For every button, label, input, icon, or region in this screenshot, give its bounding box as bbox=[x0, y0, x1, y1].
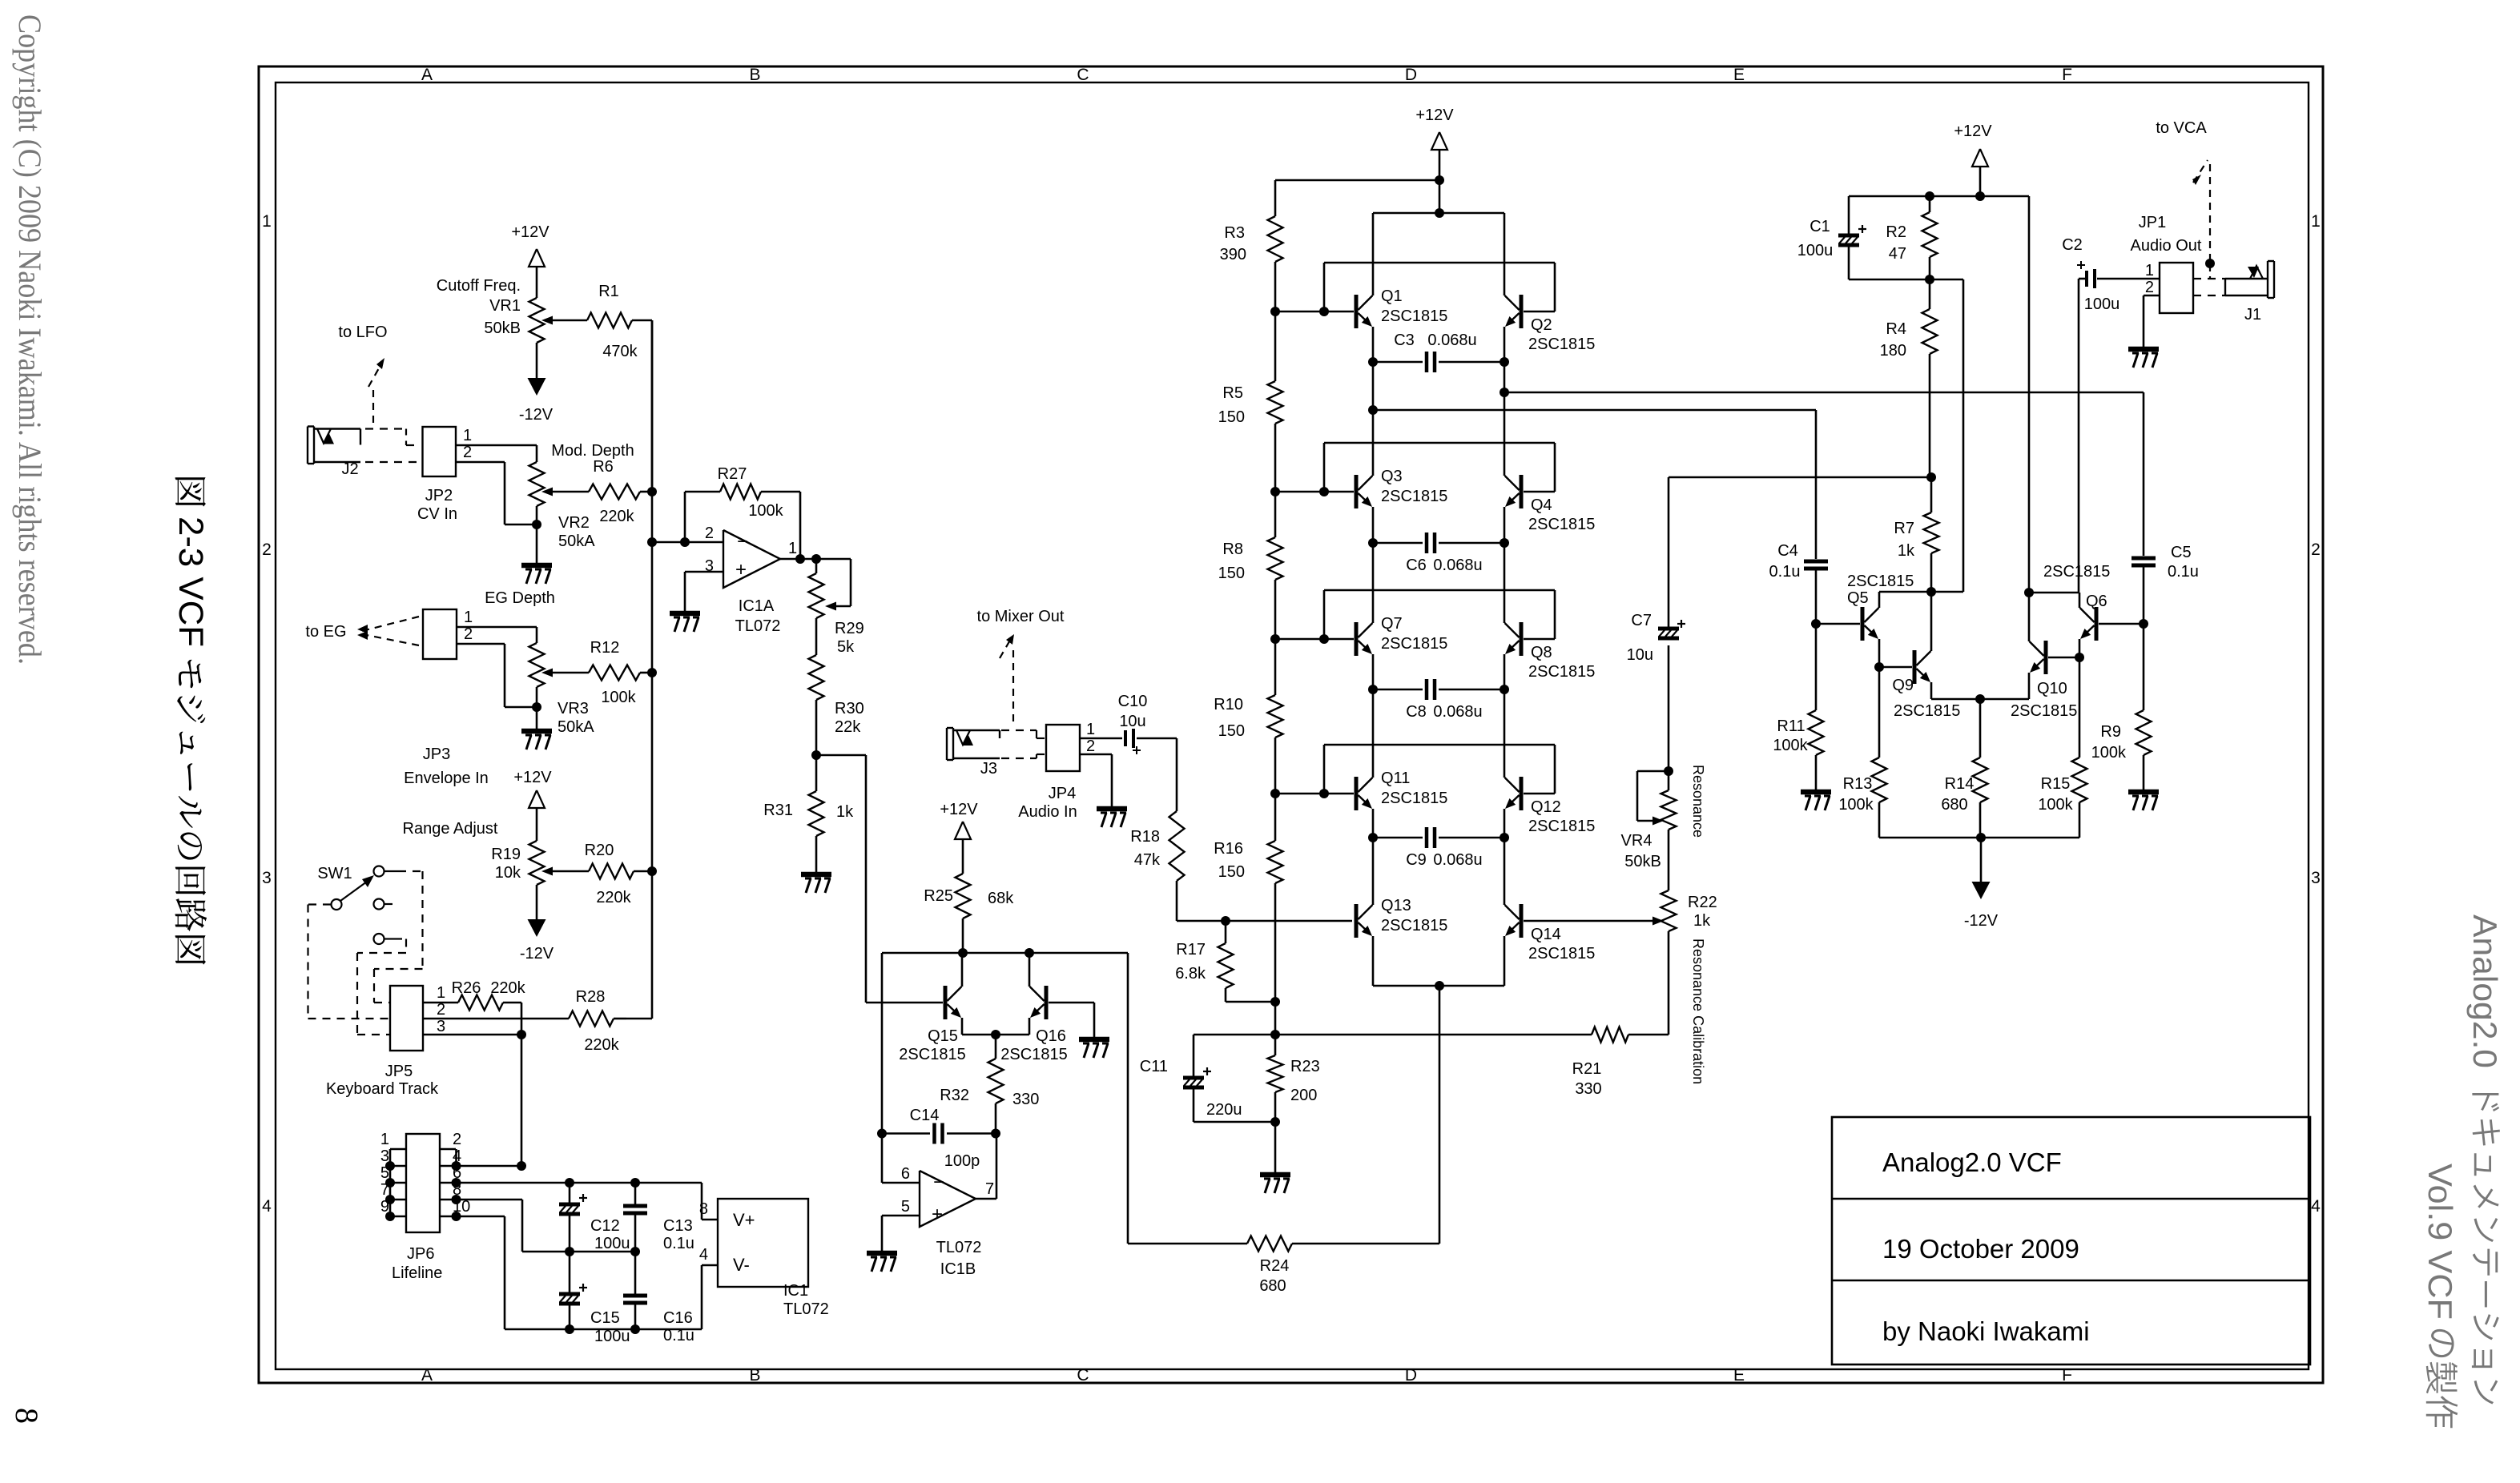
dashed cable J3 to JP4 bbox=[1001, 730, 1046, 758]
wire Q1 collector bbox=[1372, 213, 1375, 295]
dashed SW1 common to JP5 pin2 bbox=[308, 905, 391, 1019]
node chain R17 junction bbox=[1270, 997, 1280, 1007]
svg-text:4: 4 bbox=[453, 1147, 461, 1165]
transistor Q12 2SC1815 bbox=[1505, 777, 1596, 835]
svg-text:C3: C3 bbox=[1394, 332, 1415, 349]
svg-text:Vol.9 VCF: Vol.9 VCF bbox=[2421, 1163, 2459, 1320]
svg-text:100k: 100k bbox=[2038, 796, 2073, 814]
row label 2 left bbox=[262, 541, 272, 559]
capacitor C6 0.068u bbox=[1373, 533, 1504, 574]
svg-text:100k: 100k bbox=[601, 689, 636, 706]
svg-text:2SC1815: 2SC1815 bbox=[1000, 1046, 1067, 1063]
svg-text:Keyboard Track: Keyboard Track bbox=[326, 1080, 439, 1098]
svg-text:1: 1 bbox=[262, 212, 272, 231]
svg-text:100u: 100u bbox=[594, 1235, 630, 1252]
wire Q15 collector bbox=[961, 953, 964, 987]
transistor Q14 2SC1815 bbox=[1505, 904, 1596, 963]
power +12V (VR1) bbox=[511, 223, 549, 298]
svg-text:680: 680 bbox=[1259, 1277, 1286, 1295]
dashed cable J2 to JP2 bbox=[365, 429, 420, 463]
potentiometer VR3 50kA bbox=[485, 589, 594, 736]
row label 2 right bbox=[2311, 541, 2321, 559]
svg-text:C10: C10 bbox=[1118, 693, 1148, 710]
node chain feedback junction bbox=[1194, 1002, 1592, 1039]
op-amp IC1B bbox=[901, 1165, 994, 1278]
potentiometer VR1 50kB bbox=[437, 277, 587, 343]
wire R6 to bus bbox=[640, 491, 652, 493]
wire base over-route rung 3 bbox=[1319, 590, 1555, 644]
svg-text:J1: J1 bbox=[2244, 306, 2261, 324]
node Q15/Q16 emitters bbox=[991, 1030, 1000, 1039]
resistor R25 68k bbox=[924, 874, 1014, 953]
wire Q4 emitter bbox=[1500, 507, 1509, 548]
svg-text:2SC1815: 2SC1815 bbox=[1528, 516, 1595, 533]
svg-text:B: B bbox=[749, 66, 760, 84]
svg-text:JP1: JP1 bbox=[2139, 214, 2166, 231]
figure caption (rotated) bbox=[171, 477, 210, 964]
resistor R23 200 bbox=[1268, 1035, 1320, 1122]
capacitor C8 0.068u bbox=[1373, 679, 1504, 721]
IC1 power block bbox=[699, 1199, 829, 1318]
wire base over-route rung 4 bbox=[1319, 745, 1555, 798]
wire Q4 collector bbox=[1504, 362, 1506, 476]
svg-text:Q7: Q7 bbox=[1381, 615, 1403, 633]
svg-text:to Mixer Out: to Mixer Out bbox=[977, 608, 1065, 625]
svg-text:R12: R12 bbox=[590, 639, 620, 657]
copyright text (rotated) bbox=[12, 14, 48, 665]
power +12V (R25) bbox=[940, 801, 978, 874]
svg-text:1: 1 bbox=[464, 609, 473, 626]
wire C14 to IC1B minus bbox=[882, 1134, 920, 1184]
ground (JP1) bbox=[2128, 349, 2159, 368]
power +12V (output) bbox=[1954, 123, 1992, 196]
wire JP6 pin6 +12V rail bbox=[457, 1178, 719, 1220]
svg-text:1: 1 bbox=[437, 984, 445, 1002]
svg-text:J3: J3 bbox=[980, 760, 997, 778]
capacitor C13 0.1u bbox=[623, 1183, 694, 1252]
wire Q6 emitter bbox=[2079, 639, 2081, 657]
ground (IC1A plus) bbox=[670, 613, 700, 632]
svg-text:Q11: Q11 bbox=[1381, 770, 1410, 787]
svg-text:1k: 1k bbox=[836, 803, 854, 821]
svg-text:R16: R16 bbox=[1214, 840, 1243, 858]
title block author bbox=[1882, 1316, 2090, 1346]
svg-text:6.8k: 6.8k bbox=[1175, 965, 1206, 983]
resistor R7 1k bbox=[1894, 472, 1938, 592]
power -12V (R19) bbox=[520, 885, 554, 963]
svg-text:F: F bbox=[2062, 1366, 2072, 1385]
wire IC1 V- to bottom rail bbox=[702, 1265, 718, 1329]
svg-text:C9: C9 bbox=[1406, 851, 1427, 869]
svg-text:Q9: Q9 bbox=[1892, 677, 1914, 694]
capacitor C11 220u bbox=[1140, 1035, 1275, 1122]
right margin title line 1 (rotated) bbox=[2466, 914, 2504, 1404]
wire Q3 emitter bbox=[1368, 507, 1378, 548]
connector JP6 Lifeline bbox=[380, 1131, 470, 1282]
label Resonance (rotated) bbox=[1690, 765, 1706, 838]
resistor R27 100k bbox=[685, 465, 800, 559]
svg-text:Envelope In: Envelope In bbox=[404, 770, 489, 787]
wire JP2 pin1 to VR2 top bbox=[456, 445, 537, 462]
resistor R18 47k bbox=[1130, 738, 1184, 921]
svg-text:+12V: +12V bbox=[1954, 123, 1992, 140]
svg-text:4: 4 bbox=[262, 1197, 272, 1216]
potentiometer R29 5k bbox=[809, 559, 864, 656]
svg-text:R1: R1 bbox=[598, 283, 619, 300]
wire Q12 collector bbox=[1504, 689, 1506, 778]
wire Q10 collector bbox=[2024, 588, 2034, 641]
svg-text:100k: 100k bbox=[1838, 796, 1874, 814]
wire R20 to bus bbox=[634, 870, 652, 873]
svg-text:R6: R6 bbox=[593, 458, 614, 476]
jack J1 bbox=[2225, 261, 2274, 324]
column label B bottom bbox=[749, 1366, 760, 1385]
node ladder base 3 bbox=[1270, 634, 1354, 644]
svg-text:Audio In: Audio In bbox=[1018, 803, 1077, 821]
resistor R32 330 bbox=[940, 1035, 1039, 1134]
svg-text:R3: R3 bbox=[1224, 224, 1245, 242]
svg-text:EG Depth: EG Depth bbox=[485, 589, 555, 607]
svg-text:50kA: 50kA bbox=[558, 718, 594, 736]
svg-text:220k: 220k bbox=[599, 508, 634, 525]
svg-text:0.1u: 0.1u bbox=[1769, 563, 1801, 581]
svg-text:IC1: IC1 bbox=[783, 1282, 808, 1300]
svg-text:IC1A: IC1A bbox=[739, 597, 775, 615]
svg-text:J2: J2 bbox=[341, 460, 358, 478]
svg-text:A: A bbox=[421, 66, 433, 84]
wire Q15 emitter bbox=[962, 1018, 996, 1035]
column label D bottom bbox=[1405, 1366, 1417, 1385]
wire JP4 pin2 to ground bbox=[1080, 754, 1112, 809]
svg-text:100u: 100u bbox=[2084, 295, 2120, 313]
svg-text:2-3 VCF: 2-3 VCF bbox=[171, 516, 210, 647]
wire Q13 emitter bbox=[1373, 936, 1439, 986]
resistor R26 220k bbox=[452, 979, 526, 1011]
svg-text:Q4: Q4 bbox=[1531, 496, 1552, 514]
svg-text:3: 3 bbox=[262, 869, 272, 887]
svg-text:A: A bbox=[421, 1366, 433, 1385]
svg-text:2SC1815: 2SC1815 bbox=[1528, 818, 1595, 835]
wire IC1B plus to ground bbox=[882, 1216, 920, 1253]
dashed SW1 bottom contact to JP5 pin3 bbox=[357, 939, 406, 1035]
wire Q2 collector bbox=[1504, 213, 1506, 295]
svg-text:3: 3 bbox=[437, 1018, 445, 1035]
svg-text:R2: R2 bbox=[1886, 223, 1906, 241]
svg-text:TL072: TL072 bbox=[783, 1300, 829, 1318]
svg-text:150: 150 bbox=[1218, 722, 1245, 740]
capacitor C10 10u bbox=[1080, 693, 1177, 754]
title block text Analog2.0 VCF bbox=[1882, 1147, 2062, 1177]
svg-text:0.1u: 0.1u bbox=[2168, 563, 2199, 581]
connector JP3 Envelope In bbox=[404, 609, 489, 787]
jack J2 bbox=[308, 427, 360, 479]
svg-text:470k: 470k bbox=[602, 343, 638, 360]
svg-text:180: 180 bbox=[1880, 342, 1906, 360]
svg-text:Q12: Q12 bbox=[1531, 798, 1561, 816]
svg-text:TL072: TL072 bbox=[936, 1239, 982, 1256]
wire R7 bypass to R2 node bbox=[1931, 279, 1963, 592]
wire Q3 collector bbox=[1372, 362, 1375, 476]
svg-text:-12V: -12V bbox=[1964, 912, 1999, 930]
transistor Q16 2SC1815 bbox=[1000, 986, 1067, 1063]
capacitor C4 0.1u bbox=[1769, 410, 1828, 624]
to VCA dashed arrow bbox=[2156, 119, 2210, 261]
svg-text:C4: C4 bbox=[1777, 542, 1798, 560]
svg-text:Q13: Q13 bbox=[1381, 897, 1411, 914]
svg-text:R23: R23 bbox=[1290, 1058, 1320, 1075]
svg-text:Audio Out: Audio Out bbox=[2131, 237, 2202, 255]
jack J3 bbox=[947, 728, 1000, 778]
svg-text:2SC1815: 2SC1815 bbox=[1528, 945, 1595, 963]
svg-text:R7: R7 bbox=[1894, 520, 1914, 537]
svg-text:R11: R11 bbox=[1777, 717, 1805, 735]
svg-text:-12V: -12V bbox=[519, 406, 554, 424]
wire base over-route rung 1 bbox=[1319, 263, 1555, 316]
svg-text:C16: C16 bbox=[663, 1309, 693, 1327]
wire JP6 pin8 mid rail bbox=[457, 1200, 641, 1256]
wire JP6 pin10 bottom rail bbox=[457, 1216, 702, 1334]
ground (R31) bbox=[801, 874, 831, 893]
ground (JP4) bbox=[1097, 809, 1127, 827]
svg-text:200: 200 bbox=[1290, 1087, 1317, 1104]
svg-text:5: 5 bbox=[901, 1198, 910, 1216]
transistor Q7 2SC1815 bbox=[1356, 615, 1447, 656]
resistor R9 100k bbox=[2091, 624, 2152, 792]
svg-text:SW1: SW1 bbox=[317, 865, 352, 882]
svg-text:to LFO: to LFO bbox=[338, 324, 387, 341]
wire R28 right bbox=[614, 1018, 626, 1020]
svg-text:2SC1815: 2SC1815 bbox=[899, 1046, 965, 1063]
svg-text:5: 5 bbox=[380, 1164, 389, 1182]
svg-text:100k: 100k bbox=[748, 502, 783, 520]
svg-text:CV In: CV In bbox=[417, 505, 457, 523]
wire Q14 emitter bbox=[1439, 936, 1504, 986]
wire Q8 emitter bbox=[1500, 654, 1509, 694]
svg-text:Q10: Q10 bbox=[2037, 680, 2067, 697]
switch SW1 bbox=[317, 865, 398, 944]
transistor Q11 2SC1815 bbox=[1356, 770, 1447, 810]
svg-text:2SC1815: 2SC1815 bbox=[1381, 307, 1447, 325]
svg-text:47: 47 bbox=[1889, 245, 1906, 263]
right margin title line 2 (rotated) bbox=[2421, 1163, 2459, 1428]
svg-text:10k: 10k bbox=[495, 864, 521, 882]
svg-text:R22: R22 bbox=[1688, 894, 1717, 911]
op-amp IC1A bbox=[705, 524, 797, 635]
svg-text:Analog2.0 VCF: Analog2.0 VCF bbox=[1882, 1147, 2062, 1177]
svg-text:R8: R8 bbox=[1222, 541, 1243, 558]
svg-text:0.068u: 0.068u bbox=[1433, 703, 1482, 721]
svg-text:5k: 5k bbox=[837, 638, 855, 656]
wire Q14 collector bbox=[1504, 838, 1506, 905]
svg-text:C8: C8 bbox=[1406, 703, 1427, 721]
wire R25 node down to C14 bbox=[881, 953, 884, 1134]
wire ladder collector tee bbox=[1373, 212, 1504, 215]
row label 4 left bbox=[262, 1197, 272, 1216]
title block date bbox=[1882, 1234, 2079, 1264]
svg-text:8: 8 bbox=[453, 1181, 461, 1199]
svg-text:B: B bbox=[749, 1366, 760, 1385]
resistor R1 470k bbox=[587, 283, 638, 360]
to Mixer Out dashed arrow bbox=[977, 608, 1065, 725]
power -12V (VR1) bbox=[519, 343, 554, 424]
svg-text:1: 1 bbox=[2145, 262, 2154, 279]
svg-text:to VCA: to VCA bbox=[2156, 119, 2207, 137]
connector JP2 CV In bbox=[417, 427, 472, 523]
svg-text:R9: R9 bbox=[2100, 723, 2121, 741]
node ladder base 1 bbox=[1270, 307, 1354, 316]
column label A top bbox=[421, 66, 433, 84]
wire JP3 pin2 to VR3 bottom bbox=[457, 644, 537, 707]
svg-text:Q2: Q2 bbox=[1531, 316, 1552, 334]
dashed SW1 top contact to JP5 pin1 bbox=[374, 871, 423, 1003]
node Q5 base bbox=[1811, 619, 1860, 629]
svg-text:6: 6 bbox=[901, 1165, 910, 1183]
ground (R9) bbox=[2128, 792, 2159, 810]
svg-text:Q3: Q3 bbox=[1381, 468, 1403, 485]
svg-text:+: + bbox=[735, 559, 747, 581]
trimmer R22 1k bbox=[1652, 890, 1717, 931]
svg-text:Resonance Calibration: Resonance Calibration bbox=[1690, 938, 1706, 1084]
svg-text:C1: C1 bbox=[1809, 218, 1830, 235]
resistor R13 100k bbox=[1838, 667, 1981, 838]
node bus to op-amp minus bbox=[647, 537, 723, 547]
capacitor C2 100u bbox=[2062, 236, 2160, 313]
node -12V rail bbox=[1976, 833, 1986, 882]
wire output to C2 bbox=[2079, 279, 2085, 593]
svg-text:390: 390 bbox=[1220, 246, 1246, 263]
svg-text:22k: 22k bbox=[835, 718, 861, 736]
svg-text:0.068u: 0.068u bbox=[1433, 557, 1482, 574]
svg-text:4: 4 bbox=[2311, 1197, 2321, 1216]
svg-text:0.068u: 0.068u bbox=[1433, 851, 1482, 869]
svg-text:R29: R29 bbox=[835, 620, 864, 637]
ground (R23) bbox=[1260, 1175, 1290, 1193]
svg-text:2: 2 bbox=[1086, 737, 1095, 755]
wire R18 to Q13 base bbox=[1177, 916, 1352, 926]
connector JP4 Audio In bbox=[1018, 721, 1095, 821]
column label F top bbox=[2062, 66, 2072, 84]
node R30/R31 bbox=[811, 750, 866, 760]
svg-text:7: 7 bbox=[985, 1180, 994, 1198]
wire Q9 collector bbox=[1930, 592, 1933, 651]
svg-text:2SC1815: 2SC1815 bbox=[2011, 702, 2077, 720]
svg-text:D: D bbox=[1405, 66, 1417, 84]
svg-text:680: 680 bbox=[1941, 796, 1967, 814]
capacitor C16 0.1u bbox=[623, 1252, 694, 1344]
node ladder right output tap bbox=[1500, 388, 2144, 397]
svg-text:+12V: +12V bbox=[513, 769, 552, 786]
node VR3 bottom bbox=[532, 687, 541, 731]
svg-text:220k: 220k bbox=[490, 979, 525, 997]
wire Q12 emitter bbox=[1500, 809, 1509, 842]
svg-text:E: E bbox=[1733, 1366, 1745, 1385]
transistor Q2 2SC1815 bbox=[1505, 295, 1596, 353]
wire IC1A output bbox=[780, 554, 851, 606]
transistor Q10 2SC1815 bbox=[2011, 641, 2077, 720]
resistor R5 150 bbox=[1218, 311, 1283, 492]
svg-text:1: 1 bbox=[788, 540, 797, 557]
svg-text:2SC1815: 2SC1815 bbox=[2043, 563, 2110, 581]
svg-text:R13: R13 bbox=[1843, 775, 1873, 793]
node ladder base 2 bbox=[1270, 487, 1354, 496]
svg-text:C15: C15 bbox=[590, 1309, 620, 1327]
svg-text:2SC1815: 2SC1815 bbox=[1381, 917, 1447, 934]
wire Q5 emitter to Q9 base bbox=[1874, 639, 1912, 672]
svg-text:Lifeline: Lifeline bbox=[392, 1264, 442, 1282]
svg-text:2: 2 bbox=[2145, 279, 2154, 296]
svg-text:2SC1815: 2SC1815 bbox=[1381, 488, 1447, 505]
transistor Q5 2SC1815 bbox=[1847, 573, 1914, 641]
power -12V (buffer) bbox=[1964, 882, 1999, 930]
svg-text:2: 2 bbox=[2311, 541, 2321, 559]
wire R12 to bus bbox=[640, 672, 652, 674]
border outer frame bbox=[259, 66, 2323, 1383]
svg-text:1: 1 bbox=[463, 427, 472, 444]
svg-text:Mod. Depth: Mod. Depth bbox=[551, 442, 634, 460]
svg-text:V-: V- bbox=[733, 1255, 750, 1275]
wire Q10 emitter bbox=[1980, 673, 2029, 699]
resistor R24 680 bbox=[1128, 1236, 1439, 1296]
ground (Q16 base) bbox=[1079, 1039, 1109, 1058]
transistor Q1 2SC1815 bbox=[1356, 287, 1447, 328]
svg-text:Range Adjust: Range Adjust bbox=[403, 820, 498, 838]
node R2 bottom bbox=[1849, 275, 1963, 284]
wire R30 node to Q15 base bbox=[866, 755, 943, 1003]
column label E top bbox=[1733, 66, 1745, 84]
svg-text:C11: C11 bbox=[1140, 1058, 1168, 1075]
wire IC1B output bbox=[976, 1134, 996, 1200]
svg-text:Resonance: Resonance bbox=[1690, 765, 1706, 838]
svg-text:Cutoff Freq.: Cutoff Freq. bbox=[437, 277, 521, 295]
svg-text:150: 150 bbox=[1218, 565, 1245, 582]
capacitor C1 100u bbox=[1797, 196, 1866, 279]
wire JP6 pin4 junction bbox=[457, 1161, 527, 1171]
wire Q16 base to ground bbox=[1049, 1003, 1094, 1039]
svg-text:1k: 1k bbox=[1898, 542, 1915, 560]
wire Q2 emitter bbox=[1500, 327, 1509, 367]
svg-text:2SC1815: 2SC1815 bbox=[1381, 635, 1447, 653]
wire R26 to pin3 node bbox=[503, 1003, 521, 1035]
resistor R31 1k bbox=[763, 755, 854, 874]
wire Q9 emitter bbox=[1931, 682, 1985, 704]
svg-text:150: 150 bbox=[1218, 863, 1245, 881]
wire Q1 emitter bbox=[1368, 327, 1378, 367]
ground (IC1B plus) bbox=[867, 1253, 897, 1272]
resistor R2 47 bbox=[1886, 196, 1937, 279]
capacitor C9 0.068u bbox=[1373, 827, 1504, 869]
svg-text:50kA: 50kA bbox=[558, 533, 595, 550]
svg-text:JP5: JP5 bbox=[385, 1063, 413, 1080]
wire R1 to bus bbox=[632, 320, 652, 492]
transistor Q9 2SC1815 bbox=[1892, 650, 1960, 720]
svg-text:Analog2.0: Analog2.0 bbox=[2466, 914, 2504, 1068]
potentiometer R19 10k bbox=[403, 820, 589, 885]
svg-text:C6: C6 bbox=[1406, 557, 1427, 574]
wire JP5 pin2 to R28 bbox=[423, 1018, 569, 1020]
svg-text:0.1u: 0.1u bbox=[663, 1327, 694, 1344]
node +12V rail bbox=[1275, 175, 1444, 218]
svg-text:+: + bbox=[932, 1204, 943, 1225]
resistor R15 100k bbox=[1981, 657, 2087, 838]
ground (R11) bbox=[1801, 792, 1831, 810]
svg-text:R30: R30 bbox=[835, 700, 864, 717]
svg-text:Copyright (C) 2009 Naoki Iwaka: Copyright (C) 2009 Naoki Iwakami. All ri… bbox=[12, 14, 48, 665]
svg-text:C5: C5 bbox=[2171, 544, 2192, 561]
svg-text:1k: 1k bbox=[1693, 912, 1711, 930]
svg-text:R17: R17 bbox=[1176, 941, 1206, 959]
capacitor C15 100u bbox=[559, 1252, 630, 1345]
svg-text:F: F bbox=[2062, 66, 2072, 84]
